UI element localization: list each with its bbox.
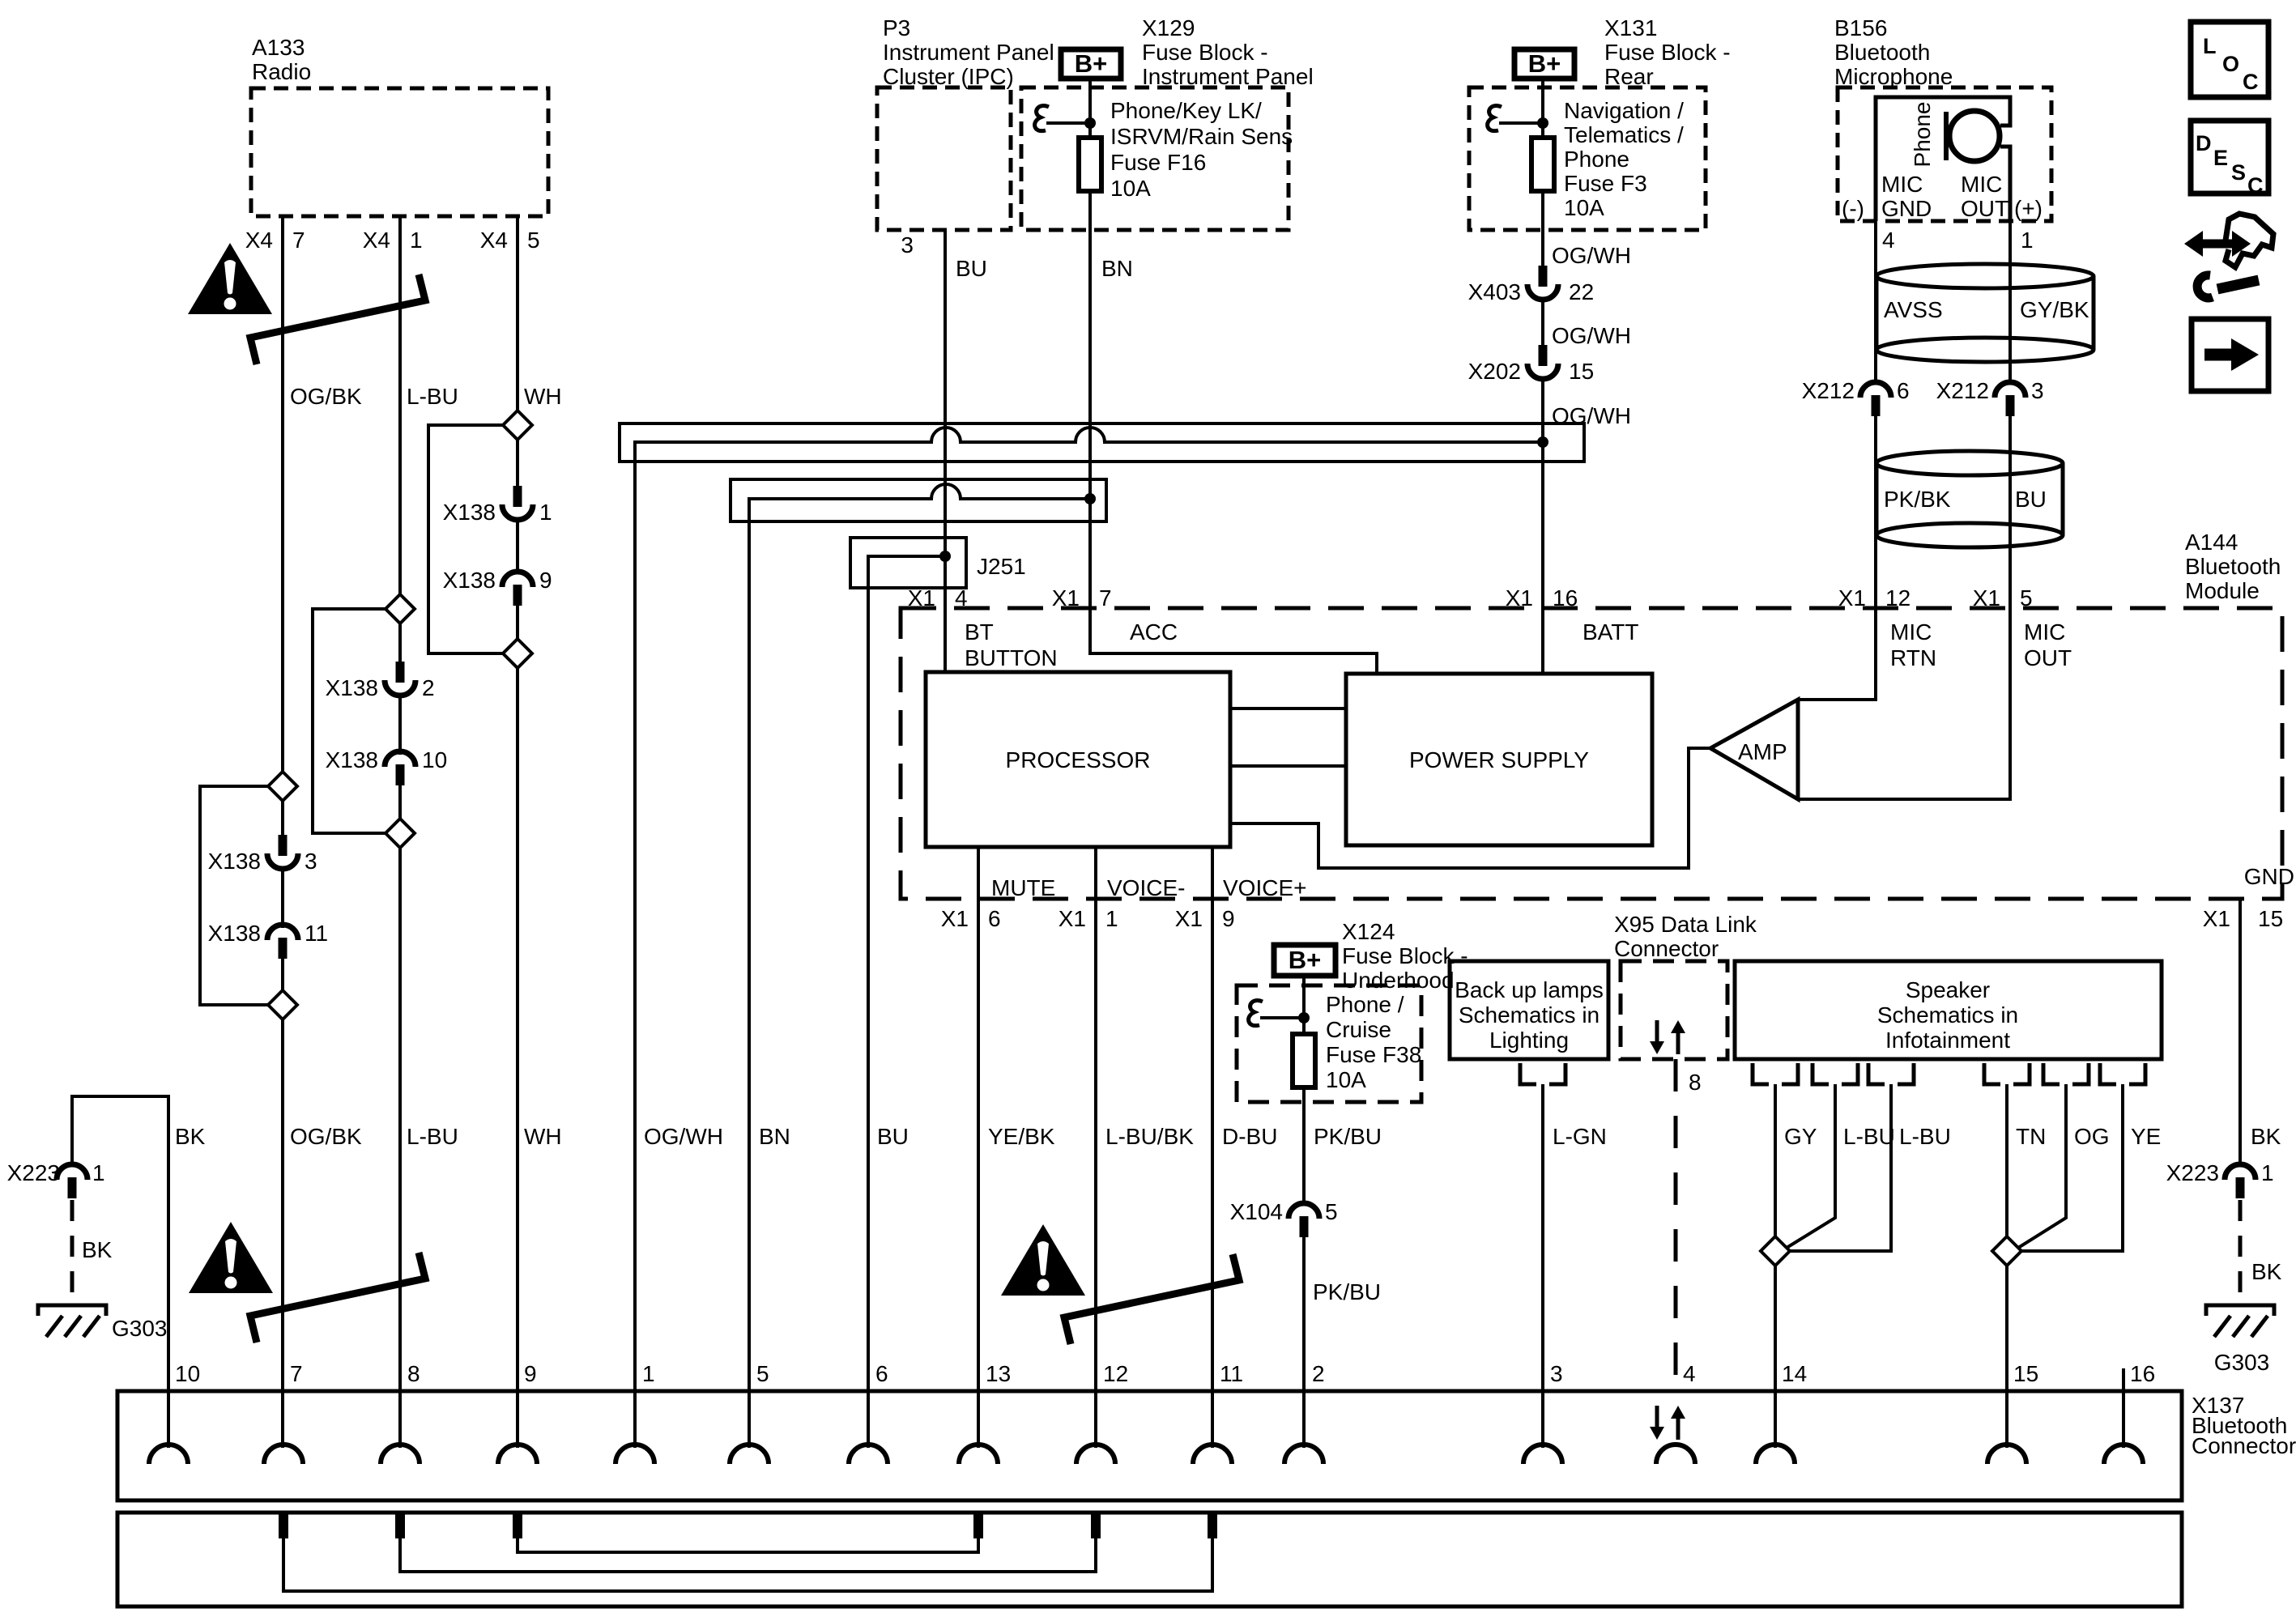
svg-text:OG/WH: OG/WH xyxy=(644,1124,723,1149)
label fuse F16 xyxy=(1110,98,1293,201)
connector X104 pin 5 xyxy=(1230,1199,1338,1237)
wire BU from X212 to module MIC OUT xyxy=(2008,416,2012,608)
svg-text:VOICE-: VOICE- xyxy=(1107,875,1185,900)
splice diamond on WH lower xyxy=(503,639,532,668)
svg-text:BK: BK xyxy=(82,1237,113,1262)
svg-text:2: 2 xyxy=(1312,1361,1325,1386)
splice rail 1 box xyxy=(620,423,1584,462)
block PROCESSOR xyxy=(926,672,1230,847)
svg-text:PK/BU: PK/BU xyxy=(1314,1124,1382,1149)
label BATT xyxy=(1582,619,1638,645)
rear pin stub 12 xyxy=(1091,1514,1101,1538)
connector X138 pin 10 xyxy=(326,747,448,785)
pin 2 number xyxy=(1312,1361,1325,1386)
svg-text:Phone: Phone xyxy=(1564,147,1629,172)
svg-text:BU: BU xyxy=(877,1124,909,1149)
label L-BU top xyxy=(407,384,458,409)
component A144 Bluetooth Module label xyxy=(2185,530,2281,603)
svg-text:OG/WH: OG/WH xyxy=(1552,243,1631,268)
svg-text:14: 14 xyxy=(1782,1361,1807,1386)
jumper wire pin 9 to pin 13 xyxy=(518,1538,978,1552)
wire GY from speaker to X137 pin 14 xyxy=(1774,1084,1777,1448)
junction dot rail 1 on OG/WH xyxy=(1537,436,1548,448)
svg-text:13: 13 xyxy=(986,1361,1011,1386)
legend icon LOC xyxy=(2191,22,2268,97)
svg-text:MUTE: MUTE xyxy=(991,875,1055,900)
svg-text:1: 1 xyxy=(410,228,423,253)
svg-text:22: 22 xyxy=(1569,279,1594,304)
svg-text:Instrument Panel: Instrument Panel xyxy=(1142,64,1314,89)
fuse pull hook X124 xyxy=(1249,1001,1304,1026)
svg-text:D-BU: D-BU xyxy=(1222,1124,1277,1149)
label OG/WH segment 3 xyxy=(1552,403,1631,428)
label L-BU speaker second xyxy=(1899,1124,1951,1149)
svg-text:9: 9 xyxy=(539,568,552,593)
svg-text:ACC: ACC xyxy=(1130,619,1178,645)
svg-text:OUT: OUT xyxy=(2024,645,2072,670)
svg-text:Rear: Rear xyxy=(1604,64,1654,89)
svg-text:Microphone: Microphone xyxy=(1834,64,1953,89)
svg-text:6: 6 xyxy=(988,906,1001,931)
component X129 fuse block label xyxy=(1142,15,1314,89)
svg-text:YE/BK: YE/BK xyxy=(988,1124,1055,1149)
svg-text:Back up lamps: Back up lamps xyxy=(1455,977,1604,1002)
pin 3 of P3 xyxy=(901,232,914,257)
svg-text:11: 11 xyxy=(305,921,328,946)
svg-text:BK: BK xyxy=(175,1124,206,1149)
wire MIC RTN internal to AMP xyxy=(1798,608,1876,700)
svg-text:(-): (-) xyxy=(1842,196,1864,221)
svg-text:X223: X223 xyxy=(7,1160,60,1185)
wire processor VOICE- to X137 pin 12 xyxy=(1094,847,1097,1448)
svg-text:5: 5 xyxy=(2020,585,2033,611)
warning triangle note 3 xyxy=(1001,1224,1085,1296)
wire OG/BK column from A133 X4-7 to X137 pin 7 xyxy=(281,216,284,1448)
svg-text:P3: P3 xyxy=(883,15,910,40)
crossing indicator slash 1 xyxy=(250,274,425,364)
component X95 Data Link Connector label xyxy=(1614,912,1757,961)
power feed B+ X131 xyxy=(1514,49,1574,79)
pin X4 5 of A133 xyxy=(480,228,540,253)
component A133 Radio dashed box xyxy=(251,88,548,216)
pin bracket backup lamps xyxy=(1520,1063,1565,1084)
label TN xyxy=(2016,1124,2046,1149)
svg-text:5: 5 xyxy=(756,1361,769,1386)
svg-text:X212: X212 xyxy=(1802,378,1855,403)
svg-text:PROCESSOR: PROCESSOR xyxy=(1006,747,1151,772)
wire GND BK from A144 to X223 xyxy=(2238,899,2242,1167)
block POWER SUPPLY xyxy=(1346,674,1652,845)
fuse F3 body xyxy=(1531,138,1554,191)
svg-text:X223: X223 xyxy=(2166,1160,2219,1185)
svg-text:Cruise: Cruise xyxy=(1326,1017,1391,1042)
svg-text:TN: TN xyxy=(2016,1124,2046,1149)
svg-text:9: 9 xyxy=(1222,906,1235,931)
terminal cups X137 xyxy=(149,1445,2143,1464)
legend icon arrow wrench xyxy=(2184,214,2273,298)
svg-text:12: 12 xyxy=(1103,1361,1128,1386)
jumper wire pin 7 to pin 11 xyxy=(283,1538,1212,1591)
svg-text:OG/WH: OG/WH xyxy=(1552,323,1631,348)
label Phone rotated xyxy=(1910,102,1935,168)
fuse F16 body xyxy=(1079,138,1101,191)
svg-text:Lighting: Lighting xyxy=(1489,1028,1569,1053)
svg-text:10A: 10A xyxy=(1110,176,1151,201)
connector X137 label xyxy=(2192,1393,2296,1458)
svg-text:AMP: AMP xyxy=(1738,739,1787,764)
svg-text:L: L xyxy=(2203,34,2217,58)
wire OG/WH from X202 to splice rail and BATT xyxy=(1541,377,1544,608)
svg-text:2: 2 xyxy=(422,675,435,700)
svg-text:MIC: MIC xyxy=(1890,619,1932,645)
component X124 fuse block label xyxy=(1342,919,1468,993)
svg-text:12: 12 xyxy=(1885,585,1910,611)
svg-text:Radio: Radio xyxy=(252,59,311,84)
svg-text:D: D xyxy=(2196,131,2212,155)
svg-text:PK/BK: PK/BK xyxy=(1884,487,1951,512)
svg-text:X212: X212 xyxy=(1936,378,1989,403)
jumper wire pin 8 to pin 12 xyxy=(400,1538,1096,1572)
label L-BU bottom xyxy=(407,1124,458,1149)
op-amp AMP xyxy=(1710,700,1798,799)
pin X1 15 of A144 xyxy=(2203,906,2283,931)
ground G303 right xyxy=(2206,1305,2274,1375)
svg-text:X202: X202 xyxy=(1468,359,1521,384)
splice diamond on L-BU lower xyxy=(386,819,415,848)
label VOICE+ xyxy=(1223,875,1306,900)
wire PK/BU from X104 to X137 pin 2 xyxy=(1302,1237,1306,1448)
svg-text:Connector: Connector xyxy=(1614,936,1719,961)
label fuse F38 xyxy=(1326,992,1421,1092)
wire OG/WH from X403 to X202 xyxy=(1541,297,1544,365)
svg-text:ISRVM/Rain Sens: ISRVM/Rain Sens xyxy=(1110,124,1293,149)
svg-text:7: 7 xyxy=(292,228,305,253)
label D-BU xyxy=(1222,1124,1277,1149)
svg-text:Module: Module xyxy=(2185,578,2260,603)
pin 11 number xyxy=(1220,1361,1243,1386)
connector X403 pin 22 xyxy=(1468,266,1595,304)
svg-text:O: O xyxy=(2222,52,2239,76)
svg-text:5: 5 xyxy=(527,228,540,253)
pin 4 of B156 xyxy=(1882,228,1895,253)
wire BU branch from J251 to X137 pin 6 xyxy=(868,556,945,1448)
svg-text:X138: X138 xyxy=(326,747,378,772)
svg-text:X95 Data Link: X95 Data Link xyxy=(1614,912,1757,937)
svg-text:1: 1 xyxy=(2261,1160,2274,1185)
label PK/BK xyxy=(1884,487,1951,512)
svg-text:Schematics in: Schematics in xyxy=(1459,1002,1600,1028)
component X129 dashed box xyxy=(1021,87,1289,230)
svg-text:L-BU: L-BU xyxy=(407,1124,458,1149)
svg-text:X403: X403 xyxy=(1468,279,1521,304)
label BK left xyxy=(175,1124,206,1149)
svg-text:4: 4 xyxy=(1882,228,1895,253)
svg-text:X1: X1 xyxy=(941,906,969,931)
shield cylinder AVSS GY/BK xyxy=(1876,264,2094,362)
label VOICE- xyxy=(1107,875,1185,900)
pin X1 4 of A144 xyxy=(908,585,968,611)
svg-text:15: 15 xyxy=(1569,359,1594,384)
svg-text:X1: X1 xyxy=(908,585,935,611)
crossing indicator slash 2 xyxy=(250,1253,425,1343)
svg-text:Instrument Panel: Instrument Panel xyxy=(883,40,1054,65)
label BU bottom xyxy=(877,1124,909,1149)
svg-text:3: 3 xyxy=(305,849,317,874)
wire OG/WH from fuse F3 to X403 xyxy=(1541,191,1544,286)
svg-text:GY/BK: GY/BK xyxy=(2020,297,2089,322)
pin brackets speaker xyxy=(1753,1063,2145,1084)
label MUTE xyxy=(991,875,1055,900)
svg-text:X138: X138 xyxy=(443,500,496,525)
wire BATT internal to power supply xyxy=(1541,608,1544,674)
wire dashed data link to X137 pin 4 xyxy=(1674,1059,1678,1389)
wire processor MUTE to X137 pin 13 xyxy=(977,847,980,1448)
label BK right lower xyxy=(2251,1259,2282,1284)
connector X138 pin 2 xyxy=(326,662,435,700)
pin 8 number xyxy=(407,1361,420,1386)
pin X4 7 of A133 xyxy=(245,228,305,253)
block Speaker schematics xyxy=(1735,961,2162,1059)
svg-text:Cluster (IPC): Cluster (IPC) xyxy=(883,64,1014,89)
svg-text:BUTTON: BUTTON xyxy=(965,645,1058,670)
wire L-GN from backup lamps to X137 pin 3 xyxy=(1541,1084,1544,1448)
component A133 Radio label xyxy=(252,35,311,84)
svg-text:X4: X4 xyxy=(480,228,508,253)
pin X1 12 of A144 xyxy=(1838,585,1910,611)
svg-text:WH: WH xyxy=(524,1124,562,1149)
component X124 dashed box xyxy=(1237,985,1421,1102)
pin X1 9 of A144 bottom xyxy=(1175,906,1235,931)
svg-text:X138: X138 xyxy=(326,675,378,700)
svg-text:7: 7 xyxy=(290,1361,303,1386)
svg-text:10A: 10A xyxy=(1326,1067,1366,1092)
svg-text:GY: GY xyxy=(1784,1124,1817,1149)
connector X138 pin 3 xyxy=(208,835,317,874)
svg-text:S: S xyxy=(2231,160,2246,185)
wire ACC internal to power supply xyxy=(1090,608,1377,674)
svg-text:G303: G303 xyxy=(112,1316,168,1341)
svg-text:C: C xyxy=(2243,70,2259,94)
svg-text:L-BU: L-BU xyxy=(1843,1124,1895,1149)
svg-text:YE: YE xyxy=(2131,1124,2161,1149)
svg-text:1: 1 xyxy=(642,1361,655,1386)
wire L-BU speaker first into splice xyxy=(1787,1084,1835,1248)
svg-text:3: 3 xyxy=(2031,378,2044,403)
label OG/WH bottom xyxy=(644,1124,723,1149)
ground G303 left xyxy=(38,1305,168,1341)
component B156 dashed box xyxy=(1838,87,2051,221)
wire PK/BK from X212 to module MIC RTN xyxy=(1874,416,1877,608)
wire WH column from A133 X4-5 to X137 pin 9 xyxy=(516,216,519,1448)
svg-text:C: C xyxy=(2247,173,2264,198)
svg-text:11: 11 xyxy=(1220,1361,1243,1386)
label plus polarity xyxy=(2014,196,2043,221)
svg-text:Phone /: Phone / xyxy=(1326,992,1404,1017)
label BN bottom xyxy=(759,1124,790,1149)
svg-text:A133: A133 xyxy=(252,35,305,60)
power feed B+ X124 xyxy=(1274,945,1335,976)
svg-text:POWER SUPPLY: POWER SUPPLY xyxy=(1409,747,1589,772)
data arrows X137 pin 4 xyxy=(1650,1406,1685,1440)
splice rail 2 inner wire to X137 pin 5 xyxy=(749,484,1090,1448)
wire stub X137 pin 16 xyxy=(2122,1368,2125,1448)
label L-GN xyxy=(1553,1124,1607,1149)
pin 4 number xyxy=(1683,1361,1696,1386)
svg-text:1: 1 xyxy=(2021,228,2034,253)
svg-text:X1: X1 xyxy=(2203,906,2230,931)
svg-text:X1: X1 xyxy=(1506,585,1533,611)
splice rail 1 inner wire to X137 pin 1 xyxy=(635,428,1543,1448)
svg-text:BK: BK xyxy=(2251,1259,2282,1284)
power feed B+ X129 xyxy=(1061,49,1121,79)
svg-text:BN: BN xyxy=(1101,256,1133,281)
svg-text:OG/BK: OG/BK xyxy=(290,384,362,409)
svg-text:15: 15 xyxy=(2013,1361,2038,1386)
label BT BUTTON xyxy=(965,619,1058,670)
interconnect line 1 xyxy=(1230,707,1346,710)
svg-text:Fuse Block -: Fuse Block - xyxy=(1604,40,1731,65)
microphone element circle xyxy=(1946,111,2000,161)
svg-text:X104: X104 xyxy=(1230,1199,1283,1224)
svg-text:E: E xyxy=(2213,146,2228,170)
fuse F38 body xyxy=(1293,1034,1315,1087)
legend icon DESC xyxy=(2191,121,2268,198)
svg-text:X1: X1 xyxy=(1052,585,1080,611)
junction block J251 xyxy=(850,538,1026,588)
pin 7 number xyxy=(290,1361,303,1386)
wire L-BU column from A133 X4-1 to X137 pin 8 xyxy=(398,216,402,1448)
rear pin stub 7 xyxy=(279,1514,288,1538)
svg-text:(+): (+) xyxy=(2014,196,2043,221)
component X95 dashed box xyxy=(1621,961,1727,1059)
connector X212 pin 6 xyxy=(1802,378,1910,416)
svg-text:Phone: Phone xyxy=(1910,102,1935,168)
svg-text:Bluetooth: Bluetooth xyxy=(2185,554,2281,579)
splice diamond on OG/BK upper xyxy=(200,772,297,1005)
svg-text:1: 1 xyxy=(92,1160,105,1185)
svg-text:X138: X138 xyxy=(208,921,261,946)
wire BK dashed to G303 left xyxy=(70,1200,75,1296)
svg-text:B+: B+ xyxy=(1289,946,1322,974)
splice diamond TN xyxy=(1992,1236,2021,1266)
svg-text:MIC: MIC xyxy=(1961,172,2002,197)
svg-text:1: 1 xyxy=(1105,906,1118,931)
svg-text:X4: X4 xyxy=(363,228,390,253)
label BN top xyxy=(1101,256,1133,281)
svg-text:RTN: RTN xyxy=(1890,645,1936,670)
svg-text:L-GN: L-GN xyxy=(1553,1124,1607,1149)
pin 9 number xyxy=(524,1361,537,1386)
junction dot X129 xyxy=(1084,117,1096,129)
label BU shield xyxy=(2015,487,2047,512)
wire processor to AMP input xyxy=(1230,748,1712,868)
block Back up lamps schematics xyxy=(1450,961,1608,1059)
splice diamond on WH upper xyxy=(428,411,532,653)
svg-text:GND: GND xyxy=(1881,196,1932,221)
svg-text:1: 1 xyxy=(539,500,552,525)
wire TN from speaker to X137 pin 15 xyxy=(2005,1084,2008,1448)
component P3 Instrument Panel Cluster label xyxy=(883,15,1054,89)
pin X1 16 of A144 xyxy=(1506,585,1578,611)
pin X1 1 of A144 bottom xyxy=(1059,906,1118,931)
splice diamond GY xyxy=(1761,1236,1790,1266)
rear pin stub 8 xyxy=(395,1514,405,1538)
pin 1 number xyxy=(642,1361,655,1386)
wire PK/BU from fuse F38 to X104 xyxy=(1302,1087,1306,1206)
splice diamond on L-BU upper xyxy=(313,594,415,833)
svg-text:6: 6 xyxy=(1897,378,1910,403)
svg-text:OUT: OUT xyxy=(1961,196,2008,221)
pin 12 number xyxy=(1103,1361,1128,1386)
svg-text:MIC: MIC xyxy=(1881,172,1923,197)
rear pin stub 13 xyxy=(973,1514,983,1538)
svg-text:Infotainment: Infotainment xyxy=(1885,1028,2010,1053)
svg-text:10A: 10A xyxy=(1564,195,1604,220)
label OG xyxy=(2074,1124,2110,1149)
svg-text:16: 16 xyxy=(1553,585,1578,611)
label WH bottom xyxy=(524,1124,562,1149)
rear pin stub 11 xyxy=(1208,1514,1217,1538)
svg-text:OG: OG xyxy=(2074,1124,2110,1149)
pin 6 number xyxy=(875,1361,888,1386)
pin X1 5 of A144 xyxy=(1973,585,2033,611)
warning triangle note 1 xyxy=(188,243,272,314)
svg-text:X124: X124 xyxy=(1342,919,1395,944)
component B156 Bluetooth Microphone label xyxy=(1834,15,1953,89)
svg-text:VOICE+: VOICE+ xyxy=(1223,875,1306,900)
wire YE speaker into splice xyxy=(2021,1084,2123,1251)
label GY xyxy=(1784,1124,1817,1149)
pin X4 1 of A133 xyxy=(363,228,423,253)
component A144 dashed box xyxy=(901,608,2282,899)
svg-text:J251: J251 xyxy=(977,554,1026,579)
wire BU column from P3 pin 3 to processor BT BUTTON xyxy=(944,230,947,672)
label YE xyxy=(2131,1124,2161,1149)
svg-text:AVSS: AVSS xyxy=(1884,297,1943,322)
svg-text:L-BU: L-BU xyxy=(1899,1124,1951,1149)
svg-text:GND: GND xyxy=(2244,864,2294,889)
svg-text:Underhood: Underhood xyxy=(1342,968,1455,993)
wire BK from X137 pin 10 to X223 xyxy=(72,1096,168,1448)
pin 13 number xyxy=(986,1361,1011,1386)
wire MIC OUT GY/BK from B156 to X212 xyxy=(2008,221,2012,385)
connector X138 pin 9 xyxy=(443,568,552,606)
svg-text:Speaker: Speaker xyxy=(1906,977,1990,1002)
svg-text:X4: X4 xyxy=(245,228,273,253)
wire B+ feed into fuse F38 xyxy=(1302,976,1306,1034)
wire BK dashed to G303 right xyxy=(2238,1200,2243,1296)
svg-text:X1: X1 xyxy=(1973,585,2000,611)
svg-text:4: 4 xyxy=(955,585,968,611)
label MIC OUT top xyxy=(1961,172,2008,221)
component X131 dashed box xyxy=(1469,87,1706,230)
wire B+ feed into fuse F16 xyxy=(1088,79,1092,138)
label AVSS xyxy=(1884,297,1943,322)
crossing indicator slash 3 xyxy=(1064,1254,1239,1344)
svg-text:10: 10 xyxy=(422,747,447,772)
pin 16 number xyxy=(2130,1361,2155,1386)
svg-text:3: 3 xyxy=(901,232,914,257)
pin 1 of B156 xyxy=(2021,228,2034,253)
label BU top xyxy=(956,256,987,281)
svg-text:B156: B156 xyxy=(1834,15,1887,40)
component P3 dashed box xyxy=(877,87,1011,230)
warning triangle note 2 xyxy=(189,1222,273,1293)
wire processor VOICE+ to X137 pin 11 xyxy=(1211,847,1214,1448)
label MIC GND xyxy=(1881,172,1932,221)
connector X137 housing xyxy=(117,1391,2182,1500)
svg-text:BK: BK xyxy=(2251,1124,2281,1149)
